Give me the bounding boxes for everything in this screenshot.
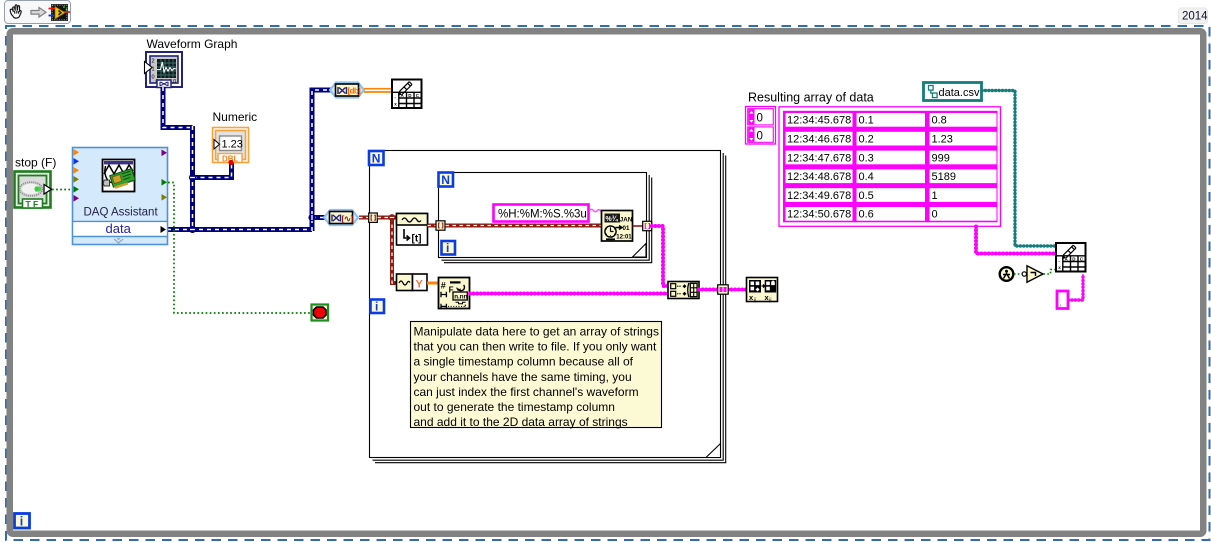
waveform array wire convert2 to tunnel xyxy=(359,216,368,220)
svg-text:12:34:45.678: 12:34:45.678 xyxy=(787,115,851,127)
free label comment box xyxy=(411,322,662,430)
time format string constant xyxy=(494,205,589,222)
svg-text:[∿]: [∿] xyxy=(342,214,354,224)
svg-text:can just index the first chann: can just index the first channel's wavef… xyxy=(414,385,639,399)
svg-text:a single timestamp column beca: a single timestamp column because all of xyxy=(414,355,634,369)
svg-text:%H:%M:%S.%3u: %H:%M:%S.%3u xyxy=(498,209,587,221)
svg-text:0: 0 xyxy=(932,209,938,221)
waveform wire junction at 392,217 xyxy=(389,214,396,221)
get waveform components Y node xyxy=(397,274,428,291)
inner loop folded corner xyxy=(633,244,646,257)
2014 version tab xyxy=(1179,8,1208,24)
svg-text:[db]: [db] xyxy=(348,87,362,96)
svg-text:ij: ij xyxy=(754,298,756,304)
outer loop right tunnel xyxy=(718,285,729,294)
path wire data.csv to write-file node xyxy=(982,91,1055,247)
numeric indicator terminal xyxy=(213,128,249,166)
first call node xyxy=(1000,267,1014,281)
outer loop folded corner xyxy=(707,444,720,457)
array index display xyxy=(746,107,776,145)
transpose 2d array node xyxy=(747,278,778,304)
DAQ Assistant express VI xyxy=(73,148,168,245)
svg-text:01: 01 xyxy=(623,225,630,232)
svg-text:1.23: 1.23 xyxy=(222,139,243,151)
svg-text:JAN: JAN xyxy=(620,217,633,224)
svg-text:Y: Y xyxy=(416,279,424,291)
svg-text:12:34:50.678: 12:34:50.678 xyxy=(787,209,851,221)
2d string array table indicator xyxy=(779,107,1001,227)
svg-text:12:34:47.678: 12:34:47.678 xyxy=(787,152,851,164)
svg-text:i: i xyxy=(446,241,449,255)
svg-text:0.6: 0.6 xyxy=(859,209,874,221)
string array wire tunnel down to build array input 1 xyxy=(652,226,668,286)
svg-text:i: i xyxy=(20,515,23,529)
svg-text:0.8: 0.8 xyxy=(932,115,947,127)
inner for loop frame xyxy=(439,173,652,263)
toolbar background panel xyxy=(5,1,71,24)
svg-text:0.3: 0.3 xyxy=(859,152,874,164)
svg-text:that you can then write to fil: that you can then write to file. If you … xyxy=(414,340,657,354)
string wire format to date-time node xyxy=(590,209,602,214)
outer for loop frame xyxy=(370,151,726,463)
svg-text:n.nn: n.nn xyxy=(454,294,467,301)
svg-text:12:34:48.678: 12:34:48.678 xyxy=(787,171,851,183)
svg-text:1.23: 1.23 xyxy=(932,134,953,146)
dbl array wire Y to number-to-string xyxy=(427,282,438,285)
delimiter string constant xyxy=(1057,291,1068,309)
build array node xyxy=(668,282,699,299)
left terminals arrows xyxy=(74,149,80,202)
svg-text:and add it to the 2D data arra: and add it to the 2D data array of strin… xyxy=(414,415,628,429)
write to spreadsheet file node xyxy=(1056,243,1086,272)
convert from dynamic data 1 (to dbl array) xyxy=(330,83,364,98)
wire junction at 192,229 xyxy=(189,226,196,233)
toolbar step arrow icon xyxy=(31,8,46,18)
dynamic data wire: vertical trunk x312 up to converts xyxy=(312,90,332,231)
svg-text:,: , xyxy=(1060,299,1062,308)
svg-text:data: data xyxy=(106,221,132,236)
svg-text:Manipulate data here to get an: Manipulate data here to get an array of … xyxy=(414,325,659,339)
convert from dynamic data 2 (to waveform array) xyxy=(324,210,358,225)
svg-text:stop (F): stop (F) xyxy=(15,156,56,170)
svg-text:i: i xyxy=(375,300,378,314)
waveform graph terminal xyxy=(145,52,183,88)
inner loop right tunnel xyxy=(643,221,652,230)
svg-text:data.csv: data.csv xyxy=(939,87,980,99)
svg-text:ji: ji xyxy=(768,298,771,304)
DAQ icon xyxy=(103,160,136,192)
file path constant data.csv xyxy=(924,83,982,101)
svg-text:Waveform Graph: Waveform Graph xyxy=(147,37,238,51)
number to fractional string node xyxy=(439,278,470,310)
dynamic data wire: branch into convert 2 xyxy=(312,215,325,220)
timestamp wire across inner loop xyxy=(446,224,602,228)
svg-text:Resulting array of data: Resulting array of data xyxy=(748,91,874,105)
svg-text:12:34:49.678: 12:34:49.678 xyxy=(787,190,851,202)
svg-text:0.1: 0.1 xyxy=(859,115,874,127)
svg-text:N: N xyxy=(441,173,450,187)
boolean wire not gate to write-file node xyxy=(1044,270,1056,275)
boolean wire DAQ stopped output down to stop-sign xyxy=(168,183,310,314)
get waveform components t node xyxy=(397,214,428,246)
svg-text:#: # xyxy=(441,281,446,291)
build table / write spreadsheet icon top xyxy=(392,80,422,109)
svg-text:0: 0 xyxy=(757,131,763,143)
outer loop iteration terminal i xyxy=(371,300,385,314)
svg-text:%¾: %¾ xyxy=(606,215,619,223)
wire junction at 192,177 xyxy=(189,174,196,181)
svg-text:0.2: 0.2 xyxy=(859,134,874,146)
svg-text:Numeric: Numeric xyxy=(213,110,258,124)
toolbar hand tool icon xyxy=(10,5,21,18)
waveform time wire into inner loop xyxy=(428,224,437,228)
while loop iteration terminal i xyxy=(15,514,30,529)
dynamic data wire: DAQ data to x312 xyxy=(167,227,312,232)
svg-text:2: 2 xyxy=(152,59,155,65)
stop sign constant xyxy=(312,305,329,321)
svg-text:0: 0 xyxy=(757,113,763,125)
dynamic data wire: branch to Numeric xyxy=(193,162,232,178)
svg-text:0: 0 xyxy=(152,75,155,81)
svg-text:N: N xyxy=(372,152,381,166)
svg-text:out to generate the timestamp: out to generate the timestamp column xyxy=(414,400,615,414)
svg-text:12:01: 12:01 xyxy=(616,235,632,241)
boolean wire stop to DAQ xyxy=(52,189,71,191)
svg-text:999: 999 xyxy=(932,152,950,164)
format date-time string node xyxy=(602,211,633,242)
right terminals arrows xyxy=(162,150,168,201)
string wire delimiter to write-file node xyxy=(1069,274,1084,300)
svg-text:T F: T F xyxy=(26,199,39,209)
waveform wire tunnel to components node with branch down xyxy=(378,218,398,284)
2d string array wire build-array through tunnel to transpose xyxy=(699,289,746,291)
boolean wire first-call to not gate xyxy=(1014,273,1022,275)
svg-text:0.4: 0.4 xyxy=(859,171,874,183)
inner loop count terminal N xyxy=(439,173,454,188)
timestamp string wire to right tunnel xyxy=(633,225,644,227)
inner loop left tunnel xyxy=(436,221,445,230)
string array wire to build array input 2 xyxy=(470,293,668,295)
outer loop left tunnel xyxy=(369,213,378,222)
toolbar VI run icon xyxy=(49,4,71,21)
stop boolean control terminal TF xyxy=(15,172,52,210)
svg-text:2014: 2014 xyxy=(1182,11,1208,23)
dynamic data wire: graph drop to junction column xyxy=(163,87,193,128)
svg-text:[t]: [t] xyxy=(412,234,422,245)
svg-text:5189: 5189 xyxy=(932,171,956,183)
svg-text:DAQ Assistant: DAQ Assistant xyxy=(84,207,159,219)
2d string array wire table to write-file node xyxy=(976,227,1055,254)
outer loop count terminal N xyxy=(369,151,384,166)
numeric array wire convert1 to write-table icon xyxy=(364,89,391,92)
dynamic data wire: vertical trunk x192 xyxy=(190,126,195,230)
svg-text:your channels have the same ti: your channels have the same timing, you xyxy=(414,370,632,384)
wire junction at 312,217 xyxy=(308,214,315,221)
svg-text:12:34:46.678: 12:34:46.678 xyxy=(787,134,851,146)
svg-text:0.5: 0.5 xyxy=(859,190,874,202)
inner loop iteration terminal i xyxy=(442,241,456,255)
svg-text:1: 1 xyxy=(932,190,938,202)
not gate xyxy=(1022,266,1043,282)
